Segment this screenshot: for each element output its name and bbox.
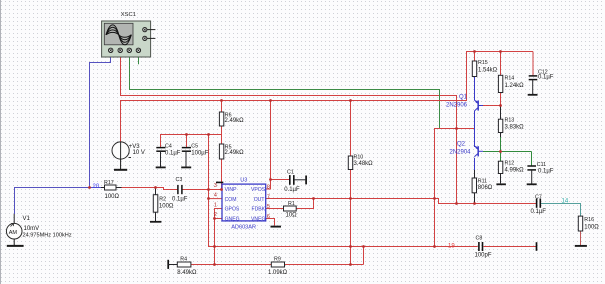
svg-text:C3: C3: [176, 177, 183, 183]
wire bottom gain line R4 R9: [191, 264, 364, 266]
svg-text:R14: R14: [505, 76, 515, 82]
svg-text:C1: C1: [287, 170, 294, 176]
capacitor C3: [172, 177, 188, 203]
wire FDBK to R1: [266, 208, 284, 210]
ground under C12: [528, 94, 538, 96]
wire mid junction riser x434: [435, 129, 475, 247]
svg-text:0.1µF: 0.1µF: [531, 209, 547, 215]
svg-text:C5: C5: [191, 143, 198, 149]
resistor R13: [498, 118, 524, 133]
capacitor C5: [182, 143, 209, 167]
svg-text:0.1µF: 0.1µF: [284, 187, 300, 193]
wire R11 bottom stub: [474, 193, 476, 204]
capacitor C7: [531, 194, 547, 215]
ground under U3 VNEG: [271, 226, 282, 228]
resistor R16: [578, 216, 599, 231]
resistor R6: [219, 112, 244, 126]
svg-text:4.99kΩ: 4.99kΩ: [505, 167, 525, 173]
svg-text:4: 4: [214, 193, 217, 199]
ground under V3: [114, 159, 127, 170]
svg-text:U3: U3: [240, 177, 247, 183]
capacitor C8: [475, 236, 537, 259]
ground under C11: [527, 183, 537, 185]
svg-text:2.49kΩ: 2.49kΩ: [225, 150, 245, 156]
transistor Q2 2N2904: [450, 141, 479, 157]
svg-text:3.48kΩ: 3.48kΩ: [354, 161, 374, 167]
svg-text:14: 14: [562, 198, 569, 204]
wire R15 to Q1 emitter (blue): [474, 77, 476, 101]
resistor R9: [268, 257, 288, 276]
wire R5 bottom to VINP: [221, 159, 223, 190]
wire R2 top stub: [155, 188, 157, 195]
svg-text:AD603AR: AD603AR: [231, 224, 256, 230]
wire VPOS riser: [266, 101, 271, 190]
svg-text:0.1µF: 0.1µF: [165, 150, 181, 156]
wire input net V1 to R17 (blue): [15, 188, 105, 215]
svg-text:2N2904: 2N2904: [450, 150, 472, 156]
svg-text:3: 3: [214, 183, 217, 189]
svg-text:0.1µF: 0.1µF: [538, 75, 554, 81]
svg-text:OUT: OUT: [254, 197, 265, 203]
wire Q2 base lead (green): [478, 150, 483, 152]
svg-text:R4: R4: [180, 257, 187, 263]
svg-text:C4: C4: [165, 143, 172, 149]
wire R6 top stub: [221, 101, 223, 113]
svg-text:C8: C8: [476, 236, 483, 242]
svg-text:100pF: 100pF: [475, 253, 492, 259]
resistor R10: [348, 155, 373, 170]
svg-text:COM: COM: [225, 197, 237, 203]
svg-text:20: 20: [93, 184, 100, 190]
sheet left edge: [0, 0, 2, 284]
svg-text:100Ω: 100Ω: [105, 194, 120, 200]
wire COM vertical and feedback line: [209, 135, 537, 247]
svg-text:R13: R13: [505, 118, 515, 124]
wire OUT line with jog: [266, 199, 536, 204]
svg-text:7: 7: [267, 194, 270, 200]
svg-text:AM: AM: [9, 230, 18, 236]
wire GPOS drop: [215, 209, 223, 265]
svg-text:V1: V1: [23, 216, 31, 222]
svg-text:3.83kΩ: 3.83kΩ: [505, 125, 525, 131]
svg-text:19: 19: [448, 243, 455, 249]
svg-text:C11: C11: [537, 162, 546, 168]
wire C1 branch: [271, 179, 290, 181]
wire R6-R5 link: [221, 126, 223, 144]
wire R1 riser to OUT: [296, 199, 313, 209]
oscilloscope XSC1: [102, 12, 156, 57]
svg-text:24.975MHz 100kHz: 24.975MHz 100kHz: [23, 233, 72, 239]
svg-text:R9: R9: [274, 257, 281, 263]
svg-text:1.54kΩ: 1.54kΩ: [478, 68, 498, 74]
capacitor C12: [529, 70, 554, 95]
svg-text:8: 8: [267, 185, 270, 191]
ground under C4: [156, 166, 166, 168]
svg-text:0.1µF: 0.1µF: [172, 196, 188, 202]
wire C11 riser (green): [531, 152, 533, 167]
svg-text:Q1: Q1: [459, 95, 468, 101]
svg-text:1: 1: [214, 203, 217, 209]
wire R10 vertical: [350, 101, 352, 265]
wire Q1 base lead: [478, 105, 483, 107]
ground under C5: [181, 166, 191, 168]
wire COM pin stub: [208, 198, 222, 200]
wire R13 to R12 (green): [500, 133, 502, 138]
svg-text:100µF: 100µF: [191, 150, 208, 156]
ground under R16: [575, 245, 587, 247]
svg-text:XSC1: XSC1: [121, 12, 136, 18]
svg-text:Q2: Q2: [457, 141, 466, 147]
svg-text:10Ω: 10Ω: [286, 213, 298, 219]
wire VNEG to ground: [266, 219, 275, 226]
svg-text:100Ω: 100Ω: [584, 224, 599, 230]
wire scope channel C (green): [130, 53, 440, 129]
svg-text:10 V: 10 V: [133, 150, 145, 156]
capacitor C4: [156, 143, 180, 167]
resistor R2: [153, 195, 174, 221]
svg-text:1.24kΩ: 1.24kΩ: [505, 83, 525, 89]
resistor R12: [498, 161, 524, 174]
wire C4 C5 decoupling rail: [161, 135, 222, 148]
capacitor C11: [527, 162, 553, 184]
wire C7 output to node 14 (teal): [540, 204, 580, 217]
wire R16 to ground: [580, 231, 582, 245]
svg-text:GNEG: GNEG: [225, 216, 240, 222]
wire scope channel B (red): [121, 53, 457, 204]
transistor Q1 2N2906: [446, 95, 478, 112]
wire R12 to ground: [500, 174, 502, 184]
svg-text:R12: R12: [505, 161, 515, 167]
svg-text:6: 6: [267, 214, 270, 220]
wire R14 bottom to base node: [500, 93, 502, 106]
wire R14 top stub: [500, 52, 502, 76]
op-amp chip U3 AD603AR: [214, 177, 270, 230]
svg-text:100Ω: 100Ω: [159, 203, 174, 209]
svg-text:8.49kΩ: 8.49kΩ: [177, 270, 197, 276]
resistor R14: [498, 75, 524, 92]
svg-text:FDBK: FDBK: [252, 207, 266, 213]
wire R9 riser: [363, 247, 365, 265]
wire scope channel A (blue): [90, 53, 111, 188]
capacitor C1: [284, 170, 306, 194]
ground under R12: [496, 183, 506, 185]
svg-text:GPOS: GPOS: [225, 207, 240, 213]
resistor R5: [219, 144, 244, 159]
wire GNEG stub: [215, 218, 223, 220]
wire +V rail from V3 (red): [121, 52, 534, 142]
svg-text:R10: R10: [354, 155, 364, 161]
svg-text:R15: R15: [478, 60, 488, 66]
svg-text:VINP: VINP: [225, 187, 237, 193]
wire Q2 collector to R11 (blue then black): [474, 158, 476, 170]
AM source V1: [6, 214, 71, 239]
resistor R15: [472, 60, 497, 76]
svg-text:1.09kΩ: 1.09kΩ: [268, 270, 288, 276]
voltage source V3: [112, 142, 145, 159]
wire R15 top stub: [474, 52, 476, 62]
svg-text:C7: C7: [535, 194, 542, 200]
wire scope terminal 4 stub (green): [138, 53, 140, 65]
svg-text:806Ω: 806Ω: [478, 185, 493, 191]
ground under V1: [7, 239, 24, 246]
resistor R17: [101, 180, 122, 200]
resistor R4: [168, 257, 197, 276]
ground under R2: [150, 221, 161, 223]
svg-text:R11: R11: [478, 178, 487, 184]
wire C12 drop from top rail: [532, 52, 534, 76]
wire base node to R13: [500, 106, 502, 120]
svg-text:2.49kΩ: 2.49kΩ: [225, 118, 245, 124]
wire R17 to C3 to VINP input line (red): [121, 188, 222, 190]
svg-text:R1: R1: [288, 201, 295, 207]
resistor R1: [284, 201, 298, 218]
svg-text:0.1µF: 0.1µF: [538, 168, 554, 174]
svg-text:R17: R17: [104, 180, 114, 186]
svg-text:10mV: 10mV: [24, 226, 40, 232]
resistor R11: [472, 178, 493, 193]
svg-text:5: 5: [267, 204, 270, 210]
svg-text:R16: R16: [584, 217, 594, 223]
svg-text:R2: R2: [159, 196, 166, 202]
svg-text:VPOS: VPOS: [251, 187, 266, 193]
svg-text:2N2906: 2N2906: [446, 103, 468, 109]
svg-text:VNEG: VNEG: [251, 216, 265, 222]
wire Q1 collector to Q2 emitter (blue): [474, 111, 476, 147]
